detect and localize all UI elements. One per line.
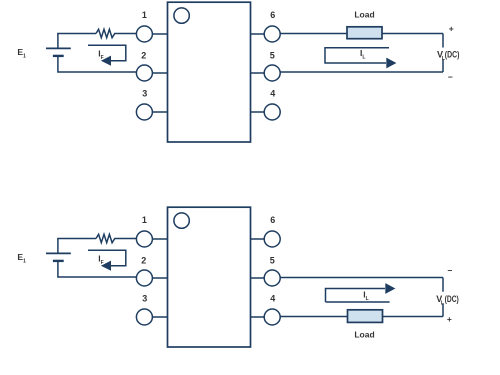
load resistor block (bottom) xyxy=(348,310,383,323)
current loop IL arrow (bottom circuit) xyxy=(326,289,390,303)
svg-text:6: 6 xyxy=(270,215,275,225)
svg-text:Load: Load xyxy=(354,10,374,20)
svg-text:+: + xyxy=(447,314,452,324)
wire: battery bottom to pin 2 wire xyxy=(58,57,136,73)
svg-text:2: 2 xyxy=(141,256,146,266)
pin 4 terminal (top) xyxy=(264,104,280,120)
svg-text:Load: Load xyxy=(354,330,374,340)
pin 2 terminal (top) xyxy=(136,65,152,81)
pin 1 terminal (bottom) xyxy=(136,231,152,247)
current loop IF arrow (bottom circuit) xyxy=(88,250,126,265)
svg-text:−: − xyxy=(448,266,453,276)
wire: right vertical output (top) xyxy=(442,34,444,73)
output label VL (DC) (top) xyxy=(436,48,463,60)
pin 6 terminal (top) xyxy=(264,26,280,42)
pin 5 terminal (bottom) xyxy=(264,270,280,286)
battery E1 top plate (long, +) bottom circuit xyxy=(46,252,71,254)
svg-text:4: 4 xyxy=(270,89,275,99)
wire: pin 4 load line (bottom circuit) xyxy=(280,316,443,318)
svg-text:1: 1 xyxy=(142,10,147,20)
svg-text:3: 3 xyxy=(142,89,147,99)
pin-1 indicator circle inside IC (bottom) xyxy=(174,213,189,228)
current loop IL arrow (top circuit) xyxy=(325,48,389,63)
load resistor block (top) xyxy=(347,27,382,39)
pin-1 indicator circle inside IC (top) xyxy=(174,8,189,23)
svg-text:2: 2 xyxy=(141,51,146,61)
wire: battery top to resistor (bottom circuit) xyxy=(58,239,96,254)
svg-text:E1: E1 xyxy=(17,47,26,60)
pin 6 terminal (bottom) xyxy=(264,231,280,247)
svg-text:−: − xyxy=(448,72,453,82)
svg-text:6: 6 xyxy=(270,10,275,20)
wire: pin 5 line (bottom circuit) xyxy=(280,277,443,279)
current loop IF arrow (top circuit) xyxy=(88,45,126,60)
svg-text:+: + xyxy=(449,24,454,34)
battery E1 top plate (long, +) xyxy=(46,47,71,49)
optocoupler IC body (bottom) xyxy=(168,207,251,347)
resistor R (series input resistor, top circuit) xyxy=(96,29,136,37)
pin 4 terminal (bottom) xyxy=(264,309,280,325)
pin 5 terminal (top) xyxy=(264,65,280,81)
wire: right vertical output (bottom) xyxy=(442,278,444,317)
battery E1 bottom plate (short, -) bottom circuit xyxy=(53,260,64,262)
text labels xyxy=(141,10,275,303)
svg-text:IL: IL xyxy=(363,290,368,303)
svg-text:IF: IF xyxy=(98,253,103,266)
svg-text:VL(DC): VL(DC) xyxy=(437,50,459,62)
wire: battery top to resistor (top circuit) xyxy=(58,34,96,49)
svg-text:VL(DC): VL(DC) xyxy=(436,294,459,306)
svg-text:1: 1 xyxy=(142,215,147,225)
optocoupler IC body (top) xyxy=(168,2,251,142)
pin 2 terminal (bottom) xyxy=(136,270,152,286)
wire stubs IC to pins 6-4 (top) xyxy=(251,34,265,112)
svg-text:4: 4 xyxy=(270,294,275,304)
svg-text:3: 3 xyxy=(142,294,147,304)
pin 3 terminal (bottom) xyxy=(136,309,152,325)
pin 3 terminal (top) xyxy=(136,104,152,120)
wire stubs pins 1-3 to IC (top) xyxy=(152,34,167,112)
svg-text:5: 5 xyxy=(270,256,275,266)
svg-text:IF: IF xyxy=(98,48,103,61)
battery E1 bottom plate (short, -) xyxy=(53,55,64,57)
wire: pin 5 return line (top) xyxy=(280,71,443,73)
wire: pin 6 to load line (top) xyxy=(280,33,443,35)
wire stubs IC to pins 6-4 (bottom) xyxy=(251,239,265,317)
wire stubs pins 1-3 to IC (bottom) xyxy=(152,239,167,317)
svg-text:IL: IL xyxy=(360,48,365,61)
svg-text:5: 5 xyxy=(270,51,275,61)
pin 1 terminal (top) xyxy=(136,26,152,42)
output label VL (DC) (bottom) xyxy=(434,292,461,304)
resistor R (series input resistor, bottom circuit) xyxy=(96,234,136,242)
svg-text:E1: E1 xyxy=(17,252,26,265)
wire: battery bottom to pin 2 wire (bottom circuit) xyxy=(58,262,136,278)
